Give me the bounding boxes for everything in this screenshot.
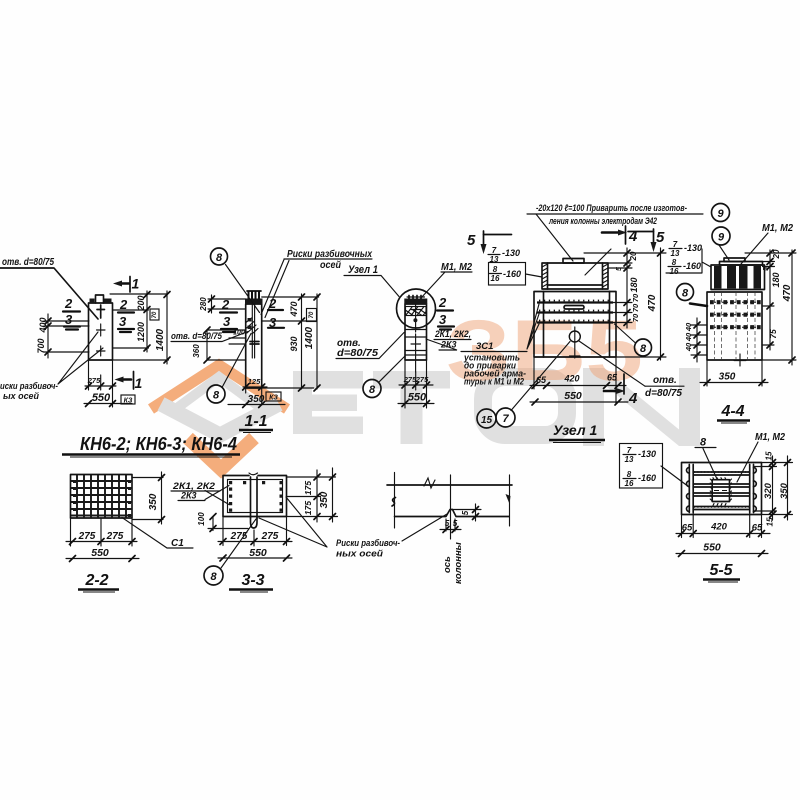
view G center bars <box>251 477 258 518</box>
view F dim 550 <box>66 558 139 560</box>
view A right ext lines <box>110 294 169 360</box>
view D small plate <box>564 306 584 310</box>
view D leader to otv text <box>579 341 645 386</box>
svg-text:8: 8 <box>672 258 677 267</box>
watermark logo chevron inner gray <box>177 377 261 408</box>
svg-text:1400: 1400 <box>304 326 315 349</box>
svg-text:3-3: 3-3 <box>241 572 264 589</box>
view A top cap left block <box>90 299 95 304</box>
svg-text:-160: -160 <box>683 261 701 271</box>
view F dim 275 275 <box>66 541 137 543</box>
view H dim 5 5 below <box>440 519 461 531</box>
svg-text:ых осей: ых осей <box>3 391 39 401</box>
svg-text:70: 70 <box>152 311 158 318</box>
svg-text:2К3: 2К3 <box>180 491 197 501</box>
view B dim 360 left <box>207 330 246 360</box>
svg-text:отв. d=80/75: отв. d=80/75 <box>2 257 54 268</box>
svg-text:65: 65 <box>536 375 547 385</box>
svg-text:иски разбивоч-: иски разбивоч- <box>0 381 58 391</box>
svg-text:70: 70 <box>631 293 640 302</box>
view D leader fan 3C1 <box>527 304 539 349</box>
view I left plate <box>689 465 693 513</box>
svg-text:175: 175 <box>303 481 313 495</box>
view A top cap right block <box>104 299 112 304</box>
watermark logo chevron middle gray <box>161 404 279 435</box>
view D top plate assembly <box>542 263 608 289</box>
svg-text:8: 8 <box>210 571 217 583</box>
svg-text:d=80/75: d=80/75 <box>645 388 682 399</box>
view C dim 275 275 <box>399 384 433 386</box>
view D left end plate hatch <box>542 264 548 287</box>
svg-text:7: 7 <box>627 446 632 455</box>
view G dim 550 <box>218 557 292 559</box>
svg-text:2: 2 <box>64 296 73 311</box>
svg-text:колонны: колонны <box>453 542 464 584</box>
svg-text:отв. d=80/75: отв. d=80/75 <box>171 331 223 341</box>
view B column outline <box>246 304 262 388</box>
svg-text:180: 180 <box>771 272 781 287</box>
view D leader to circles 15 7 <box>511 342 570 411</box>
view G dim 350 <box>332 468 334 522</box>
svg-text:-130: -130 <box>638 449 656 459</box>
svg-text:2К1, 2К2: 2К1, 2К2 <box>172 481 215 491</box>
watermark letter T <box>373 371 450 444</box>
svg-text:-160: -160 <box>503 269 521 279</box>
svg-text:15: 15 <box>765 451 774 460</box>
view D bar row 1 <box>537 301 613 303</box>
svg-text:400: 400 <box>38 317 48 333</box>
svg-text:осей: осей <box>320 260 341 271</box>
svg-text:20: 20 <box>772 249 781 259</box>
svg-text:9: 9 <box>717 208 724 220</box>
view F label C1 <box>122 518 193 549</box>
view B KZ box <box>266 392 281 401</box>
svg-text:275: 275 <box>415 375 429 384</box>
view H squiggle <box>424 478 435 488</box>
svg-text:3С1: 3С1 <box>476 341 493 352</box>
svg-text:70: 70 <box>309 311 315 318</box>
svg-text:5: 5 <box>453 519 458 528</box>
svg-text:1: 1 <box>135 375 143 391</box>
svg-text:350: 350 <box>148 493 159 510</box>
svg-text:470: 470 <box>289 301 299 317</box>
svg-text:420: 420 <box>710 522 728 533</box>
svg-text:Узел 1: Узел 1 <box>553 422 597 438</box>
svg-text:3: 3 <box>65 312 73 327</box>
view G dim 175 175 <box>316 470 318 522</box>
view E callout circle 8 <box>677 284 694 301</box>
svg-text:550: 550 <box>249 547 267 559</box>
svg-text:70: 70 <box>631 313 640 322</box>
view G leaders to riski <box>259 497 327 547</box>
view A dim 70 box <box>150 309 159 320</box>
view I right plate <box>750 465 754 513</box>
view B top cap hatched <box>245 299 263 305</box>
svg-text:туры к М1 и М2: туры к М1 и М2 <box>464 377 525 388</box>
view D bar row 2 <box>537 311 613 313</box>
svg-text:8: 8 <box>640 343 647 355</box>
svg-text:4: 4 <box>628 390 638 407</box>
svg-text:Узел 1: Узел 1 <box>348 264 378 276</box>
svg-text:М1, М2: М1, М2 <box>762 223 793 234</box>
view E dim 40 40 40 <box>696 318 698 362</box>
watermark letter O <box>483 377 567 435</box>
svg-text:8: 8 <box>627 470 632 479</box>
svg-text:-130: -130 <box>684 243 702 253</box>
svg-text:Риски разбивочных: Риски разбивочных <box>287 248 372 260</box>
view E dim 470 right <box>791 250 793 365</box>
view I dim 550 <box>676 553 768 555</box>
view A anchor mark <box>97 305 105 318</box>
view G leaders from 2K label <box>205 486 229 505</box>
svg-text:7: 7 <box>673 240 678 249</box>
view A leaders to axis text <box>58 332 103 384</box>
svg-text:3: 3 <box>439 312 447 327</box>
view F mesh outline <box>71 475 133 519</box>
view D top bump <box>563 259 584 264</box>
view A dim 275 bottom <box>85 385 116 387</box>
section arrow 4 bottom <box>604 390 617 393</box>
annotation circle 9 <box>712 204 730 222</box>
view C bottom ext <box>405 360 427 408</box>
svg-text:4-4: 4-4 <box>720 403 744 420</box>
view A column outline <box>89 303 113 360</box>
view F mesh vertical bars <box>77 475 126 518</box>
svg-text:275: 275 <box>78 531 96 542</box>
view H dim 5 bump height <box>453 504 482 521</box>
view E circle 9 <box>712 227 730 245</box>
svg-text:-130: -130 <box>502 248 520 258</box>
view D right ext lines <box>584 253 666 357</box>
svg-text:8: 8 <box>493 265 498 274</box>
svg-text:5: 5 <box>763 267 770 271</box>
view D dim line right <box>626 248 628 328</box>
view B leaders from riski text <box>261 260 289 318</box>
svg-text:350: 350 <box>248 394 265 405</box>
svg-text:350: 350 <box>779 482 790 499</box>
view H top line <box>387 484 512 486</box>
svg-text:40: 40 <box>684 342 693 352</box>
svg-text:20: 20 <box>629 251 638 261</box>
svg-text:7: 7 <box>492 246 497 255</box>
view B dim 125 <box>243 386 267 388</box>
section arrow 4 top <box>602 231 618 234</box>
view E cap plate <box>720 262 763 266</box>
view B callout circle 8 top <box>211 248 228 265</box>
svg-text:15: 15 <box>766 517 775 526</box>
view E body outline <box>707 292 762 360</box>
view I bottom ext <box>682 513 762 538</box>
svg-text:180: 180 <box>629 277 639 292</box>
view I fraction box leader <box>620 444 663 489</box>
svg-text:550: 550 <box>703 542 721 554</box>
view A KZ box <box>121 395 135 404</box>
view I right ext <box>754 463 793 515</box>
view C callout circle 8 <box>363 380 381 398</box>
svg-text:360: 360 <box>192 344 201 358</box>
svg-text:100: 100 <box>197 512 206 526</box>
view F bottom ext <box>71 518 133 546</box>
view H profile with bump <box>395 510 510 517</box>
view B dim 70 box <box>307 309 317 322</box>
view B dim 280 left <box>208 295 246 313</box>
view A dim 400 left <box>44 314 89 358</box>
svg-text:-160: -160 <box>638 473 656 483</box>
svg-text:ления колонны электродам Э42: ления колонны электродам Э42 <box>548 216 657 227</box>
view C joint lines <box>405 330 427 356</box>
svg-text:280: 280 <box>199 297 208 312</box>
view D column faces <box>544 292 610 358</box>
view I dim 65 420 65 <box>676 533 770 535</box>
view H left vline <box>394 473 396 529</box>
svg-text:1: 1 <box>132 276 140 292</box>
view I bar 3 <box>693 493 750 496</box>
svg-text:2К1, 2К2,: 2К1, 2К2, <box>434 329 471 339</box>
view E right ext <box>745 253 796 360</box>
svg-text:8: 8 <box>213 390 220 402</box>
svg-text:ось: ось <box>442 556 453 573</box>
view I bar 4 hatched <box>693 507 750 510</box>
svg-text:40: 40 <box>684 332 693 342</box>
svg-text:550: 550 <box>92 392 111 404</box>
view D callout circle 7 <box>496 408 515 427</box>
view E dim line right 1 <box>769 250 771 350</box>
svg-text:3: 3 <box>223 314 231 329</box>
svg-text:16: 16 <box>491 274 500 283</box>
view G callout circle 8 <box>204 566 223 585</box>
view D callout circle 15 <box>477 409 496 428</box>
svg-text:125: 125 <box>248 377 261 386</box>
view G bottom ext <box>223 517 287 547</box>
view A dim 550 bottom <box>84 403 132 405</box>
svg-text:9: 9 <box>718 232 725 244</box>
view B interior bars <box>252 304 254 358</box>
view G right ext <box>287 477 338 517</box>
watermark letter E <box>293 371 363 434</box>
view B dim 1400 <box>316 294 318 389</box>
svg-text:15: 15 <box>481 415 493 426</box>
view I dim 350 <box>787 456 789 520</box>
svg-text:16: 16 <box>670 267 679 276</box>
svg-text:1-1: 1-1 <box>244 413 267 430</box>
view E bottom cross <box>734 354 746 366</box>
view E body bar lines <box>715 292 756 360</box>
view F mesh horizontal bars <box>71 481 132 516</box>
view C top cap hatched <box>404 299 427 305</box>
view B interior hooks <box>248 318 252 322</box>
svg-text:С1: С1 <box>171 538 184 549</box>
view C column outline <box>405 304 427 360</box>
svg-text:930: 930 <box>289 336 299 351</box>
view E dim 350 <box>700 382 768 384</box>
view E stud row 1 <box>710 300 761 304</box>
svg-text:550: 550 <box>408 392 427 404</box>
svg-text:550: 550 <box>564 390 582 402</box>
svg-text:5: 5 <box>461 510 470 515</box>
svg-text:5: 5 <box>656 229 665 246</box>
view I bar 2 <box>693 484 750 487</box>
svg-text:2: 2 <box>268 296 277 311</box>
svg-text:М1, М2: М1, М2 <box>441 262 472 273</box>
view E corbel outline <box>711 265 765 290</box>
svg-text:200: 200 <box>136 295 146 311</box>
svg-text:13: 13 <box>671 249 680 258</box>
svg-text:8: 8 <box>216 252 223 264</box>
svg-text:275: 275 <box>230 531 248 542</box>
view H leader to riski text <box>402 514 447 541</box>
svg-text:470: 470 <box>647 294 658 312</box>
view G inner stirrup <box>228 480 283 513</box>
svg-text:Риски разбивоч-: Риски разбивоч- <box>336 538 400 549</box>
svg-text:3: 3 <box>119 314 127 329</box>
svg-text:420: 420 <box>563 374 579 384</box>
svg-text:1400: 1400 <box>155 328 166 351</box>
svg-text:КЗ: КЗ <box>269 395 278 402</box>
view E top bump <box>724 258 745 262</box>
view A dim 700 left <box>44 351 89 353</box>
svg-text:275: 275 <box>106 531 124 542</box>
view E bottom ext <box>707 360 762 386</box>
view G outline <box>223 476 287 517</box>
view I bar 1 hatched <box>693 472 750 475</box>
svg-text:КЗ: КЗ <box>124 398 133 405</box>
svg-text:КН6-2; КН6-3; КН6-4: КН6-2; КН6-3; КН6-4 <box>80 433 237 454</box>
view I center plate <box>712 480 729 502</box>
svg-text:2-2: 2-2 <box>84 572 108 589</box>
view D dim 550 <box>530 401 628 403</box>
view B dim 350 <box>228 404 285 406</box>
svg-text:7: 7 <box>502 413 509 425</box>
svg-text:8: 8 <box>682 288 689 300</box>
svg-text:350: 350 <box>319 491 330 508</box>
watermark letter N <box>583 368 700 446</box>
svg-text:70: 70 <box>631 303 640 312</box>
view G dim 100 <box>208 517 248 531</box>
svg-text:8: 8 <box>369 384 376 396</box>
view D right end plate hatch <box>603 264 609 287</box>
svg-text:550: 550 <box>91 547 109 559</box>
watermark logo chevron bottom orange <box>188 438 254 469</box>
svg-text:13: 13 <box>625 455 634 464</box>
svg-text:5: 5 <box>616 267 623 271</box>
svg-text:65: 65 <box>607 373 618 383</box>
view A dim 200+1200 line <box>146 291 148 352</box>
view D plate leader <box>585 249 611 275</box>
svg-text:ных осей: ных осей <box>336 549 383 560</box>
view H right vline <box>509 475 511 526</box>
view B bottom ext <box>246 388 262 405</box>
svg-text:5-5: 5-5 <box>709 562 733 579</box>
view G dim 275 275 <box>218 541 292 543</box>
view F mesh dots <box>73 480 131 517</box>
svg-text:2: 2 <box>438 295 447 310</box>
view D hole circle <box>569 331 580 342</box>
view A leader from otv text <box>0 268 98 319</box>
view B ext lines right <box>262 297 319 388</box>
view C dim 550 <box>398 403 434 405</box>
svg-text:700: 700 <box>36 338 46 353</box>
view G rebar dots <box>229 481 283 512</box>
svg-text:175: 175 <box>303 501 313 515</box>
svg-text:320: 320 <box>763 482 774 499</box>
view A section arrow 1 bottom <box>121 378 131 381</box>
svg-text:75: 75 <box>768 329 778 339</box>
view C detail circle <box>397 289 436 328</box>
view I dim 15 320 15 <box>772 456 774 520</box>
view A bottom ext lines <box>89 360 113 407</box>
view A center cross 2 <box>97 346 106 356</box>
view D bar row 3 <box>537 321 613 323</box>
view C hatched joint band <box>406 307 427 316</box>
svg-text:-20х120 ℓ=100 Приварить после: -20х120 ℓ=100 Приварить после изготов- <box>536 203 687 214</box>
view E stud row 2 <box>710 313 761 317</box>
view D dim 65 420 65 <box>530 385 626 387</box>
svg-text:65: 65 <box>752 523 763 534</box>
view D bottom ext <box>534 357 616 404</box>
svg-text:65: 65 <box>682 523 693 534</box>
svg-text:275: 275 <box>87 376 101 385</box>
view F dim 350 <box>132 478 163 520</box>
svg-text:40: 40 <box>684 322 693 332</box>
svg-text:470: 470 <box>782 284 793 302</box>
view E stud row 3 <box>710 325 761 329</box>
svg-text:350: 350 <box>719 372 736 383</box>
svg-text:1200: 1200 <box>136 322 146 342</box>
view A top cap center bump <box>96 295 104 303</box>
view E corbel bars <box>714 266 722 289</box>
view H axis vline <box>450 475 452 539</box>
view D dim 470 <box>660 248 662 360</box>
view D frame outline <box>534 292 616 358</box>
watermark logo chevron outer orange <box>151 365 287 409</box>
svg-text:d=80/75: d=80/75 <box>337 348 378 359</box>
view A dim 1400 line <box>166 291 168 364</box>
svg-text:5: 5 <box>445 519 450 528</box>
view B dim 470 <box>301 294 303 389</box>
view A center cross 1 <box>97 324 106 336</box>
view I outer rect <box>682 463 762 515</box>
view D fraction 8/16-160 box <box>489 263 526 286</box>
svg-text:16: 16 <box>625 479 634 488</box>
svg-text:8: 8 <box>700 437 707 449</box>
svg-text:4: 4 <box>628 228 638 245</box>
svg-text:275: 275 <box>261 531 279 542</box>
svg-text:отв.: отв. <box>653 375 677 386</box>
view D callout circle 8 <box>635 339 652 356</box>
view C interior marks <box>411 304 421 332</box>
svg-text:М1, М2: М1, М2 <box>755 432 785 443</box>
view A section arrow 1 top <box>120 282 129 285</box>
svg-text:5: 5 <box>467 232 476 249</box>
view B callout circle 8 bottom <box>207 385 225 403</box>
